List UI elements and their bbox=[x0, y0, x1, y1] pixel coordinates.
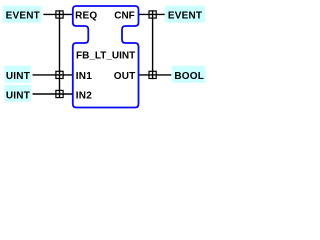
svg-text:BOOL: BOOL bbox=[174, 71, 204, 82]
with-square on IN1 wire bbox=[56, 71, 63, 78]
svg-text:OUT: OUT bbox=[114, 71, 136, 82]
svg-text:IN2: IN2 bbox=[76, 91, 92, 102]
wire UINT to IN2 bbox=[33, 93, 73, 95]
type label background EVENT (left) bbox=[3, 6, 42, 23]
svg-text:UINT: UINT bbox=[6, 91, 30, 102]
wire OUT to BOOL bbox=[139, 74, 172, 76]
type label background UINT (row IN1) bbox=[4, 66, 31, 83]
with-square on REQ wire bbox=[56, 11, 63, 18]
svg-text:UINT: UINT bbox=[6, 71, 30, 82]
svg-text:EVENT: EVENT bbox=[6, 11, 40, 22]
type label background UINT (row IN2) bbox=[4, 85, 31, 102]
svg-text:IN1: IN1 bbox=[76, 71, 92, 82]
type label background BOOL bbox=[172, 66, 205, 83]
svg-text:EVENT: EVENT bbox=[168, 11, 202, 22]
function block FB_LT_UINT outline bbox=[73, 6, 139, 108]
svg-text:REQ: REQ bbox=[75, 11, 97, 22]
wire CNF to EVENT bbox=[139, 13, 165, 15]
wire UINT to IN1 bbox=[33, 74, 73, 76]
with-square on IN2 wire bbox=[56, 90, 63, 97]
with-square on CNF wire bbox=[149, 11, 156, 18]
with-association vertical line left (REQ with IN1, IN2) bbox=[59, 10, 61, 98]
with-association vertical line right (CNF with OUT) bbox=[152, 10, 154, 79]
with-square on OUT wire bbox=[149, 71, 156, 78]
type label background EVENT (right) bbox=[165, 6, 205, 23]
svg-text:CNF: CNF bbox=[114, 11, 135, 22]
wire EVENT to REQ bbox=[43, 13, 72, 15]
svg-text:FB_LT_UINT: FB_LT_UINT bbox=[76, 51, 135, 62]
